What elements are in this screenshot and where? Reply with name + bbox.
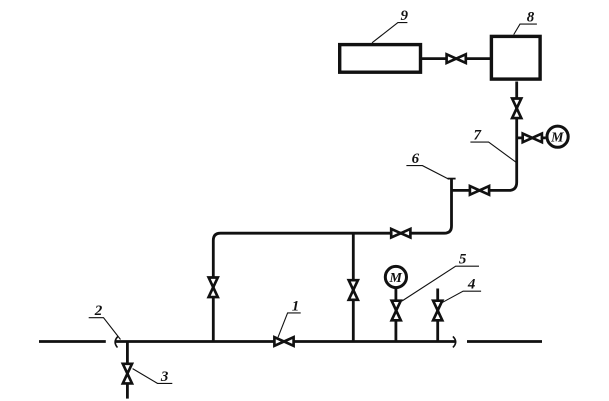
pipe break (right parenthesis) [453, 336, 456, 347]
valve 5 [392, 301, 401, 311]
valve 4 [433, 301, 442, 311]
valve on riser B [349, 280, 358, 290]
pipe gauge branch to manometer M1 [394, 289, 397, 342]
pipe drain stub with valve 3 [126, 342, 129, 399]
pipe main left segment [39, 340, 106, 343]
leader line label 7 [470, 142, 516, 162]
svg-text:2: 2 [94, 303, 103, 319]
valve on motor M2 branch [523, 134, 533, 143]
svg-text:8: 8 [527, 10, 535, 26]
svg-text:6: 6 [412, 151, 420, 167]
valve on header H2 [470, 186, 480, 195]
vessel 8 (square) [491, 36, 540, 79]
leader line label 8 [514, 24, 537, 34]
svg-text:3: 3 [160, 369, 169, 385]
leader line label 9 [372, 23, 407, 43]
vessel 9 (wide rectangle) [340, 45, 421, 73]
motor M2 circle [547, 126, 568, 147]
leader line label 5 [402, 266, 479, 301]
pipe branch to motor M2 [517, 136, 546, 139]
valve between vessels 9 and 8 [447, 54, 457, 63]
leader line label 1 [278, 313, 301, 337]
pipe riser A and upper header H1 [213, 179, 451, 342]
manometer M1 circle [385, 266, 406, 287]
svg-text:M: M [550, 131, 564, 146]
valve 3 [123, 364, 132, 374]
svg-text:4: 4 [467, 277, 476, 293]
svg-text:7: 7 [473, 128, 481, 144]
svg-text:M: M [388, 271, 402, 286]
pipe vent stub with valve 4 [436, 289, 439, 342]
leader line label 4 [441, 291, 481, 303]
valve on header H1 [391, 229, 401, 238]
leader line label 3 [133, 369, 173, 384]
pipe main right segment [467, 340, 542, 343]
pipe 7 (header H2 rising to vessel 8) [452, 82, 517, 191]
svg-text:5: 5 [459, 252, 467, 268]
valve below vessel 8 [512, 99, 521, 109]
svg-text:1: 1 [292, 298, 300, 314]
valve 1 [274, 337, 284, 346]
node 6 tie-in tick [448, 178, 456, 180]
pipe break node 2 (left parenthesis) [115, 336, 118, 347]
pipe riser B [352, 233, 355, 341]
leader line label 6 [406, 166, 449, 180]
pipe connector between vessel 9 and vessel 8 [422, 57, 490, 60]
valve on riser A [209, 278, 218, 288]
svg-text:9: 9 [400, 8, 408, 24]
leader line label 2 [89, 318, 121, 340]
pipe main centre segment [115, 340, 456, 343]
